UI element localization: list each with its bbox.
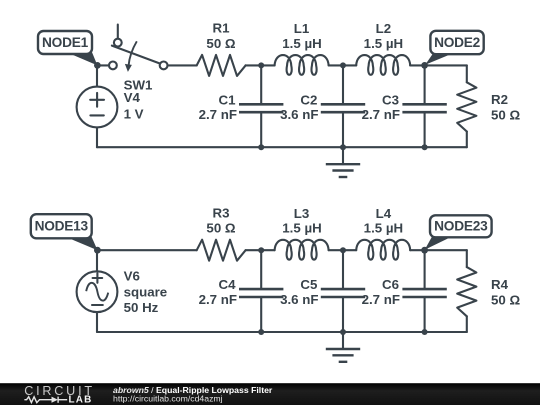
svg-text:C3: C3 [382, 92, 399, 107]
capacitor C6 [402, 250, 446, 332]
svg-text:LAB: LAB [69, 395, 93, 405]
svg-text:1.5 µH: 1.5 µH [364, 36, 403, 51]
label V4 SW1 1V [124, 78, 153, 122]
svg-text:1.5 µH: 1.5 µH [282, 221, 321, 236]
svg-text:L2: L2 [376, 21, 392, 36]
svg-text:http://circuitlab.com/cd4azmj: http://circuitlab.com/cd4azmj [113, 393, 223, 403]
junction dot [258, 144, 264, 150]
svg-text:C4: C4 [219, 277, 237, 292]
resistor R2 [457, 82, 476, 131]
junction dot [340, 62, 346, 68]
ground [326, 147, 360, 177]
label C6 2.7nF [362, 277, 400, 307]
wire [466, 132, 468, 148]
junction dot [422, 144, 428, 150]
inductor L2 [356, 55, 410, 75]
resistor R1 [197, 55, 246, 76]
svg-text:NODE23: NODE23 [434, 219, 488, 234]
wire [96, 127, 98, 147]
label R3 50ohm [206, 205, 235, 235]
svg-text:V4: V4 [124, 90, 141, 105]
svg-text:C1: C1 [219, 92, 237, 107]
svg-text:NODE2: NODE2 [434, 35, 481, 50]
voltage source V6 [77, 271, 118, 312]
svg-text:50 Hz: 50 Hz [124, 300, 159, 315]
svg-text:50 Ω: 50 Ω [491, 293, 520, 308]
wire [96, 250, 98, 271]
svg-text:NODE1: NODE1 [42, 35, 89, 50]
footer title abrown5 / Equal-Ripple Lowpass Filter [113, 385, 273, 395]
svg-text:3.6 nF: 3.6 nF [280, 292, 318, 307]
wire [97, 249, 197, 251]
capacitor C3 [402, 65, 446, 147]
svg-text:1 V: 1 V [124, 106, 144, 121]
svg-text:2.7 nF: 2.7 nF [362, 292, 400, 307]
svg-text:1.5 µH: 1.5 µH [282, 36, 321, 51]
capacitor C1 [239, 65, 283, 147]
node D label NODE23 [425, 215, 492, 250]
inductor L4 [356, 240, 410, 260]
label C3 2.7nF [362, 92, 400, 122]
CircuitLab logo text CIRCUIT [24, 384, 95, 398]
wire [466, 316, 468, 332]
resistor R4 [457, 267, 476, 316]
switch SW1 [109, 25, 168, 72]
CircuitLab logo text LAB [69, 395, 93, 405]
label V6 square 50Hz [124, 268, 168, 315]
wire [97, 64, 109, 66]
node C label NODE13 [31, 214, 98, 250]
svg-text:NODE13: NODE13 [35, 219, 89, 234]
junction node D dot [421, 247, 428, 254]
svg-text:C5: C5 [300, 277, 318, 292]
svg-text:1.5 µH: 1.5 µH [364, 221, 403, 236]
footer bar [0, 383, 540, 405]
wire [466, 250, 468, 267]
junction node A dot [94, 62, 101, 69]
wire [96, 312, 98, 332]
svg-text:R4: R4 [491, 277, 509, 292]
label C4 2.7nF [199, 277, 237, 307]
svg-text:R1: R1 [213, 21, 231, 36]
svg-text:L3: L3 [294, 206, 310, 221]
capacitor C2 [321, 65, 365, 147]
wire [410, 249, 467, 251]
inductor L1 [275, 55, 329, 75]
label R4 50ohm [491, 277, 520, 308]
junction node B dot [421, 62, 428, 69]
svg-text:R2: R2 [491, 92, 508, 107]
svg-text:2.7 nF: 2.7 nF [199, 107, 237, 122]
wire [96, 65, 98, 86]
wire [97, 331, 467, 333]
junction dot [258, 62, 264, 68]
svg-text:V6: V6 [124, 268, 140, 283]
label L1 [282, 21, 321, 51]
label L4 [364, 206, 403, 236]
voltage source V4 [77, 87, 118, 128]
svg-text:50 Ω: 50 Ω [206, 221, 235, 236]
CircuitLab logo squiggle: wire resistor diode [24, 397, 67, 403]
wire [329, 64, 357, 66]
svg-text:3.6 nF: 3.6 nF [280, 107, 318, 122]
junction dot [258, 329, 264, 335]
label C2 3.6nF [280, 92, 318, 122]
svg-text:2.7 nF: 2.7 nF [199, 292, 237, 307]
junction dot [340, 247, 346, 253]
capacitor C4 [239, 250, 283, 332]
node A label NODE1 [38, 31, 97, 65]
junction node C dot [94, 247, 101, 254]
wire [410, 64, 467, 66]
svg-text:square: square [124, 285, 168, 300]
inductor L3 [275, 240, 329, 260]
wire [168, 64, 197, 66]
wire [246, 249, 275, 251]
junction dot [422, 329, 428, 335]
svg-text:50 Ω: 50 Ω [491, 108, 520, 123]
svg-text:L4: L4 [376, 206, 392, 221]
label R1 50ohm [206, 21, 235, 51]
ground [326, 332, 360, 362]
node B label NODE2 [425, 31, 483, 65]
footer url [113, 393, 223, 403]
svg-text:C2: C2 [300, 92, 317, 107]
junction dot [340, 144, 346, 150]
label C1 2.7nF [199, 92, 237, 122]
wire [329, 249, 357, 251]
label L2 [364, 21, 403, 51]
resistor R3 [197, 240, 246, 261]
label C5 3.6nF [280, 277, 318, 307]
svg-text:2.7 nF: 2.7 nF [362, 107, 400, 122]
svg-text:C6: C6 [382, 277, 399, 292]
svg-text:50 Ω: 50 Ω [206, 36, 235, 51]
svg-text:L1: L1 [294, 21, 310, 36]
wire [246, 64, 275, 66]
wire [466, 65, 468, 82]
svg-text:R3: R3 [213, 205, 230, 220]
label L3 [282, 206, 321, 236]
wire [97, 146, 467, 148]
junction dot [258, 247, 264, 253]
junction dot [340, 329, 346, 335]
capacitor C5 [321, 250, 365, 332]
label R2 50ohm [491, 92, 520, 123]
